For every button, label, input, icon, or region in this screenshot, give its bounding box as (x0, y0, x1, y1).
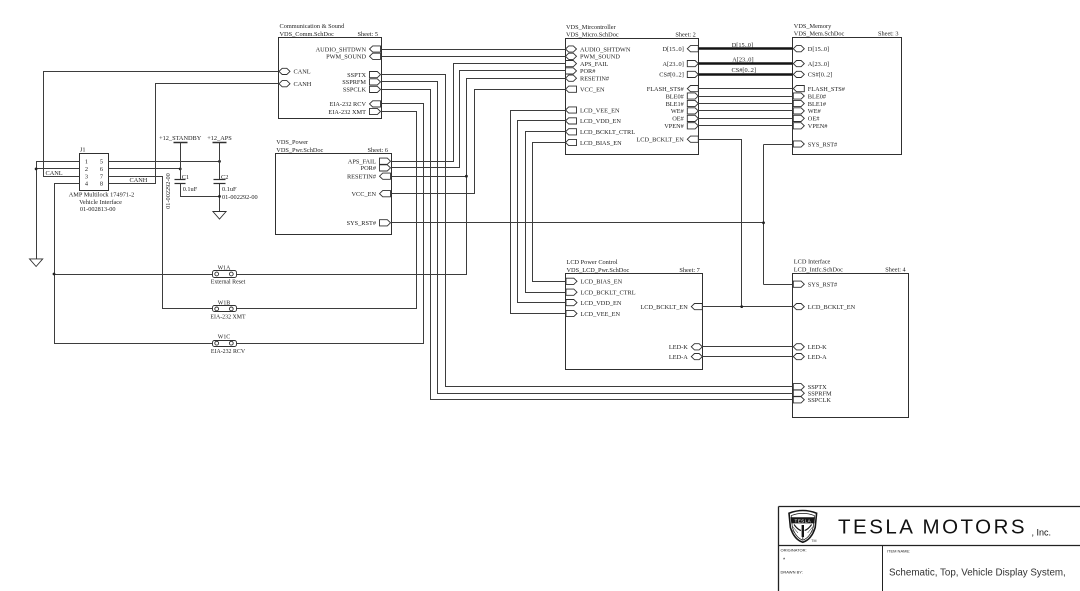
svg-text:SYS_RST#: SYS_RST# (808, 282, 838, 289)
sheet entry BLE1# on Micro block (666, 100, 699, 107)
svg-text:LCD_VEE_EN: LCD_VEE_EN (581, 311, 621, 318)
svg-text:POR#: POR# (580, 68, 596, 75)
sheet entry LCD_BCKLT_EN on LCD Interface block (793, 304, 855, 311)
wire +12_APS rail to C2 (219, 143, 221, 180)
sheet entry LCD_BCKLT_EN on LCD Power block (640, 304, 702, 311)
svg-text:PWM_SOUND: PWM_SOUND (326, 54, 366, 61)
svg-text:PWM_SOUND: PWM_SOUND (580, 54, 620, 61)
label 01-002292-00 (C1 part number, vertical) (165, 173, 172, 209)
sheet entry LCD_VDD_EN on LCD Power block (566, 300, 622, 307)
svg-text:LED-K: LED-K (669, 344, 688, 351)
sheet entry SSPCLK on LCD Interface block (793, 397, 831, 404)
svg-text:BLE0#: BLE0# (808, 93, 827, 100)
svg-text:VPEN#: VPEN# (664, 123, 684, 130)
svg-text:SSPTX: SSPTX (347, 72, 366, 79)
svg-text:LCD_BCKLT_CTRL: LCD_BCKLT_CTRL (581, 290, 636, 297)
sheet symbol LCD Interface (LCD_Intfc.SchDoc) (793, 259, 909, 418)
ground at J1 pins 1-2 (30, 259, 43, 267)
svg-text:+12_APS: +12_APS (207, 135, 232, 142)
wire RESETIN# (237, 79, 566, 275)
svg-text:LED-A: LED-A (808, 354, 827, 361)
wire CANH (109, 84, 279, 184)
wire SYS_RST# to LCD Interface (764, 284, 793, 286)
sheet entry SSPCLK on Comm block (343, 86, 381, 93)
sheet entry LED-A on LCD Power block (669, 354, 702, 361)
junction J1 pins 1-2 ground (35, 168, 38, 171)
wire BLE0# (699, 96, 793, 98)
svg-text:External Reset: External Reset (211, 280, 246, 286)
svg-text:SSPCLK: SSPCLK (808, 397, 832, 404)
junction SYS_RST# (762, 221, 765, 224)
sheet entry RESETIN# on Power block (347, 173, 391, 180)
sheet entry LED-K on LCD Power block (669, 344, 702, 351)
wire SYS_RST# to Memory (764, 144, 793, 146)
svg-text:EIA-232 XMT: EIA-232 XMT (210, 315, 246, 321)
wire VCC_EN (392, 90, 566, 194)
svg-text:Sheet: 3: Sheet: 3 (878, 31, 898, 38)
svg-text:CANL: CANL (294, 69, 311, 76)
svg-text:VDS_Comm.SchDoc: VDS_Comm.SchDoc (280, 31, 335, 38)
sheet symbol VDS_Power (VDS_Pwr.SchDoc) (276, 139, 392, 235)
svg-text:C2: C2 (221, 174, 228, 181)
sheet entry APS_FAIL on Power block (348, 158, 391, 165)
svg-text:POR#: POR# (361, 165, 377, 172)
wire POR# (392, 71, 566, 168)
net label D[15..0] (732, 42, 753, 49)
power +12_APS (207, 135, 232, 143)
svg-text:Schematic, Top, Vehicle Displa: Schematic, Top, Vehicle Display System, (889, 567, 1066, 578)
svg-text:AUDIO_SHTDWN: AUDIO_SHTDWN (580, 46, 631, 53)
label ITEM NAME: (887, 549, 910, 554)
svg-text:TESLA: TESLA (795, 519, 812, 524)
svg-text:A[23..0]: A[23..0] (808, 61, 829, 68)
svg-text:TESLA MOTORS: TESLA MOTORS (838, 516, 1027, 539)
sheet entry SSPRFM on LCD Interface block (793, 390, 832, 397)
svg-text:W1C: W1C (218, 335, 231, 341)
jumper W1C EIA-232 RCV (211, 335, 246, 355)
wire SYS_RST# horizontal from Power (392, 222, 764, 224)
svg-text:6: 6 (100, 166, 103, 173)
svg-text:LCD_Intfc.SchDoc: LCD_Intfc.SchDoc (794, 267, 843, 274)
wire LED-K (703, 346, 793, 348)
sheet entry APS_FAIL on Micro block (566, 61, 609, 68)
svg-text:TM: TM (811, 539, 816, 543)
capacitor C2 0.1uF 01-002292-00 (214, 174, 258, 201)
svg-text:VCC_EN: VCC_EN (580, 87, 605, 94)
svg-text:CS#[0..2]: CS#[0..2] (808, 72, 833, 79)
svg-text:LCD_VDD_EN: LCD_VDD_EN (581, 300, 622, 307)
svg-text:VDS_Mircontroller: VDS_Mircontroller (566, 24, 617, 31)
svg-text:CANL: CANL (46, 170, 63, 177)
svg-text:A[23..0]: A[23..0] (662, 61, 683, 68)
svg-text:Vehicle Interface: Vehicle Interface (79, 199, 122, 206)
sheet entry PWM_SOUND on Comm block (326, 53, 380, 60)
svg-text:LCD_BCKLT_EN: LCD_BCKLT_EN (640, 304, 688, 311)
sheet entry POR# on Micro block (566, 68, 597, 75)
svg-text:LED-A: LED-A (669, 354, 688, 361)
label AMP Multilock 174971-2 / Vehicle Interface / 01-002813-00 (69, 192, 135, 213)
sheet entry SYS_RST# on LCD Interface block (793, 281, 838, 288)
label Schematic, Top, Vehicle Display System, (889, 567, 1066, 578)
sheet entry LCD_BCKLT_EN on Micro block (636, 136, 698, 143)
sheet entry LED-K on LCD Interface block (793, 344, 827, 351)
svg-text:LCD_BCKLT_CTRL: LCD_BCKLT_CTRL (580, 129, 635, 136)
sheet symbol LCD Power Control (VDS_LCD_Pwr.SchDoc) (566, 259, 703, 369)
net label CANH (130, 177, 148, 184)
sheet entry EIA-232 XMT on Comm block (328, 108, 380, 115)
wire C2 bottom to ground (219, 184, 221, 212)
svg-text:VDS_Memory: VDS_Memory (794, 23, 832, 30)
sheet entry LCD_VDD_EN on Micro block (566, 118, 622, 125)
svg-text:SYS_RST#: SYS_RST# (808, 141, 838, 148)
svg-text:01-002292-00: 01-002292-00 (222, 194, 258, 201)
svg-text:APS_FAIL: APS_FAIL (580, 61, 608, 68)
junction External Reset / pin4 riser (53, 273, 56, 276)
svg-text:7: 7 (100, 174, 103, 181)
jumper W1B EIA-232 XMT (210, 300, 246, 320)
label originator value (783, 558, 786, 564)
sheet symbol VDS_Microcontroller (VDS_Micro.SchDoc) (566, 24, 699, 155)
sheet entry FLASH_STS# on Micro block (647, 86, 699, 93)
svg-text:LCD_BIAS_EN: LCD_BIAS_EN (581, 279, 623, 286)
svg-text:CS#[0..2]: CS#[0..2] (732, 67, 757, 74)
svg-text:LED-K: LED-K (808, 344, 827, 351)
sheet entry VCC_EN on Micro block (566, 86, 605, 93)
svg-text:FLASH_STS#: FLASH_STS# (647, 86, 685, 93)
title block frame (779, 507, 1080, 591)
wire J1 pin 1 to ground (37, 162, 80, 259)
svg-text:Sheet: 6: Sheet: 6 (368, 147, 388, 154)
svg-text:W1B: W1B (218, 300, 231, 306)
svg-text:ITEM NAME:: ITEM NAME: (887, 549, 910, 554)
sheet symbol Communication & Sound (VDS_Comm.SchDoc) (279, 23, 382, 119)
sheet entry SYS_RST# on Memory block (793, 141, 838, 148)
sheet entry AUDIO_SHTDWN on Micro block (566, 46, 631, 53)
svg-text:CANH: CANH (130, 177, 148, 184)
wire APS_FAIL (392, 64, 566, 162)
svg-text:LCD Interface: LCD Interface (794, 259, 831, 266)
svg-text:AMP Multilock 174971-2: AMP Multilock 174971-2 (69, 192, 135, 199)
svg-text:5: 5 (100, 159, 103, 166)
sheet entry LED-A on LCD Interface block (793, 354, 827, 361)
net label CS#[0..2] (732, 67, 757, 74)
svg-text:LCD Power Control: LCD Power Control (567, 259, 618, 266)
wire LCD_BCKLT_EN between LCD blocks (703, 306, 793, 308)
sheet entry WE# on Micro block (671, 108, 698, 115)
svg-text:01-002292-00: 01-002292-00 (165, 173, 172, 209)
sheet entry BLE0# on Memory block (793, 93, 827, 100)
Tesla badge logo (789, 511, 817, 544)
sheet entry CANL on Comm block (279, 68, 311, 75)
sheet entry LCD_BIAS_EN on Micro block (566, 139, 623, 146)
sheet entry SSPTX on Comm block (347, 72, 380, 79)
svg-text:D[15..0]: D[15..0] (662, 46, 683, 53)
svg-text:D[15..0]: D[15..0] (808, 46, 829, 53)
svg-text:A[23..0]: A[23..0] (732, 56, 753, 63)
svg-text:OE#: OE# (672, 116, 684, 123)
wire AUDIO_SHTDWN (382, 49, 566, 51)
sheet entry LCD_VEE_EN on LCD Power block (566, 310, 620, 317)
sheet entry RESETIN# on Micro block (566, 75, 610, 82)
net label A[23..0] (732, 56, 753, 63)
svg-text:CS#[0..2]: CS#[0..2] (659, 72, 684, 79)
wire EIA-232 XMT (237, 112, 417, 309)
sheet entry LCD_VEE_EN on Micro block (566, 107, 620, 114)
svg-text:ORIGINATOR:: ORIGINATOR: (781, 548, 807, 553)
svg-text:SSPRFM: SSPRFM (342, 79, 366, 86)
label ORIGINATOR: (781, 548, 807, 553)
connector J1 AMP Multilock 174971-2 (80, 147, 109, 191)
svg-text:0.1uF: 0.1uF (222, 186, 237, 193)
svg-text:C1: C1 (182, 174, 189, 181)
svg-text:J1: J1 (80, 147, 86, 154)
wire FLASH_STS# (699, 88, 793, 90)
svg-text:D[15..0]: D[15..0] (732, 42, 753, 49)
sheet entry CANH on Comm block (279, 81, 312, 88)
svg-text:WE#: WE# (671, 108, 685, 115)
svg-text:VDS_Mem.SchDoc: VDS_Mem.SchDoc (794, 31, 845, 38)
jumper W1A External Reset (211, 265, 246, 285)
sheet entry SSPTX on LCD Interface block (793, 384, 827, 391)
svg-text:VCC_EN: VCC_EN (352, 191, 377, 198)
capacitor C1 0.1uF (175, 174, 198, 193)
svg-text:BLE1#: BLE1# (808, 101, 827, 108)
sheet entry VCC_EN on Power block (352, 191, 391, 198)
svg-text:LCD_BCKLT_EN: LCD_BCKLT_EN (636, 137, 684, 144)
bus D[15..0] (699, 47, 793, 49)
sheet entry LCD_BCKLT_CTRL on LCD Power block (566, 289, 636, 296)
wire LCD_VEE_EN (511, 111, 566, 314)
net label CANL (46, 170, 63, 177)
wire LCD_BCKLT_EN from Micro (699, 140, 742, 307)
svg-text:3: 3 (85, 174, 88, 181)
wire WE# (699, 110, 793, 112)
wire J1 pin 7 to W1B (109, 177, 213, 309)
bus CS#[0..2] (699, 73, 793, 75)
wire J1 pin 5 to +12_APS (109, 161, 220, 163)
svg-text:0.1uF: 0.1uF (183, 186, 198, 193)
wire EIA-232 RCV (237, 104, 424, 344)
wire VPEN# (699, 125, 793, 127)
svg-text:VDS_LCD_Pwr.SchDoc: VDS_LCD_Pwr.SchDoc (567, 267, 630, 274)
wire J1 pin 4 riser (55, 184, 213, 344)
svg-text:+12_STANDBY: +12_STANDBY (159, 135, 202, 142)
wire J1 pin 6 to +12_STANDBY (109, 168, 181, 170)
sheet entry EIA-232 RCV on Comm block (329, 101, 380, 108)
svg-text:SSPCLK: SSPCLK (343, 87, 367, 94)
svg-text:LCD_BIAS_EN: LCD_BIAS_EN (580, 140, 622, 147)
wire LCD_BCKLT_CTRL (526, 132, 566, 293)
sheet entry CS#[0..2] on Memory block (793, 71, 832, 78)
wire BLE1# (699, 103, 793, 105)
svg-text:Sheet: 4: Sheet: 4 (885, 267, 906, 274)
svg-text:VDS_Power: VDS_Power (276, 139, 309, 146)
junction RESETIN# at External Reset riser (465, 175, 468, 178)
wire SSPTX (382, 75, 793, 387)
sheet entry OE# on Micro block (672, 115, 698, 122)
sheet entry AUDIO_SHTDWN on Comm block (316, 46, 381, 53)
junction LCD_BCKLT_EN (740, 305, 743, 308)
svg-text:Communication & Sound: Communication & Sound (280, 23, 346, 30)
svg-text:FLASH_STS#: FLASH_STS# (808, 86, 846, 93)
sheet entry SSPRFM on Comm block (342, 79, 380, 86)
sheet entry OE# on Memory block (793, 115, 820, 122)
sheet entry D[15..0] on Micro block (662, 46, 698, 53)
svg-text:LCD_VEE_EN: LCD_VEE_EN (580, 107, 620, 114)
sheet entry LCD_BIAS_EN on LCD Power block (566, 278, 623, 285)
pin numbers 5-8 of J1 (100, 159, 103, 188)
sheet entry POR# on Power block (361, 165, 391, 172)
svg-text:LCD_VDD_EN: LCD_VDD_EN (580, 118, 621, 125)
label DRAWN BY: (781, 570, 803, 575)
pin numbers 1-4 of J1 (85, 159, 89, 188)
junction +12_APS / pin 5 (218, 160, 221, 163)
ground under C2 (213, 212, 226, 220)
svg-text:1: 1 (85, 159, 88, 166)
label TESLA MOTORS, Inc. (838, 516, 1051, 539)
svg-text:, Inc.: , Inc. (1032, 528, 1052, 538)
power +12_STANDBY (159, 135, 202, 143)
svg-text:DRAWN BY:: DRAWN BY: (781, 570, 803, 575)
svg-text:BLE1#: BLE1# (666, 101, 685, 108)
sheet entry A[23..0] on Memory block (793, 61, 829, 68)
wire PWM_SOUND (382, 56, 566, 58)
svg-text:OE#: OE# (808, 116, 820, 123)
svg-text:01-002813-00: 01-002813-00 (80, 206, 116, 213)
sheet entry WE# on Memory block (793, 108, 821, 115)
svg-text:RESETIN#: RESETIN# (580, 76, 610, 83)
sheet entry BLE1# on Memory block (793, 100, 827, 107)
svg-text:VDS_Pwr.SchDoc: VDS_Pwr.SchDoc (276, 147, 323, 154)
sheet entry PWM_SOUND on Micro block (566, 53, 621, 60)
svg-text:LCD_BCKLT_EN: LCD_BCKLT_EN (808, 304, 856, 311)
wire LED-A (703, 356, 793, 358)
wire CANL (44, 72, 279, 177)
wire LCD_VDD_EN (518, 121, 566, 303)
svg-text:AUDIO_SHTDWN: AUDIO_SHTDWN (316, 46, 367, 53)
svg-text:WE#: WE# (808, 108, 822, 115)
wire W1A left segment (55, 274, 213, 276)
wire LCD_BIAS_EN (533, 143, 566, 282)
sheet entry SYS_RST# on Power block (347, 220, 391, 227)
sheet entry VPEN# on Micro block (664, 123, 698, 130)
wire SYS_RST# riser (763, 145, 765, 285)
svg-text:8: 8 (100, 181, 103, 188)
sheet entry A[23..0] on Micro block (662, 61, 698, 68)
wire J1 pin 2 (37, 168, 80, 170)
svg-text:Sheet: 2: Sheet: 2 (675, 32, 695, 39)
junction +12_STANDBY / pin 6 (179, 168, 182, 171)
wire OE# (699, 118, 793, 120)
wire SSPRFM (382, 82, 793, 394)
sheet entry BLE0# on Micro block (666, 93, 699, 100)
sheet symbol VDS_Memory (VDS_Mem.SchDoc) (793, 23, 902, 155)
svg-text:Sheet: 7: Sheet: 7 (679, 267, 699, 274)
wire SSPCLK (382, 90, 793, 400)
wire C1 bottom to C2 link (181, 184, 220, 197)
svg-text:W1A: W1A (218, 265, 232, 271)
svg-text:VDS_Micro.SchDoc: VDS_Micro.SchDoc (566, 32, 619, 39)
sheet entry VPEN# on Memory block (793, 123, 828, 130)
junction C1/C2 ground link (218, 195, 221, 198)
svg-text:EIA-232 RCV: EIA-232 RCV (329, 101, 366, 108)
wire +12_STANDBY rail to C1 (180, 143, 182, 180)
svg-text:CANH: CANH (294, 81, 312, 88)
sheet entry LCD_BCKLT_CTRL on Micro block (566, 129, 636, 136)
svg-text:EIA-232 XMT: EIA-232 XMT (328, 109, 366, 116)
svg-text:EIA-232 RCV: EIA-232 RCV (211, 349, 246, 355)
svg-text:VPEN#: VPEN# (808, 123, 828, 130)
svg-text:2: 2 (85, 166, 88, 173)
bus A[23..0] (699, 62, 793, 64)
sheet entry CS#[0..2] on Micro block (659, 71, 698, 78)
sheet entry D[15..0] on Memory block (793, 46, 829, 53)
sheet entry FLASH_STS# on Memory block (793, 86, 845, 93)
svg-text:BLE0#: BLE0# (666, 93, 685, 100)
svg-text:SYS_RST#: SYS_RST# (347, 220, 377, 227)
svg-text:RESETIN#: RESETIN# (347, 174, 377, 181)
svg-text:Sheet: 5: Sheet: 5 (358, 31, 378, 38)
